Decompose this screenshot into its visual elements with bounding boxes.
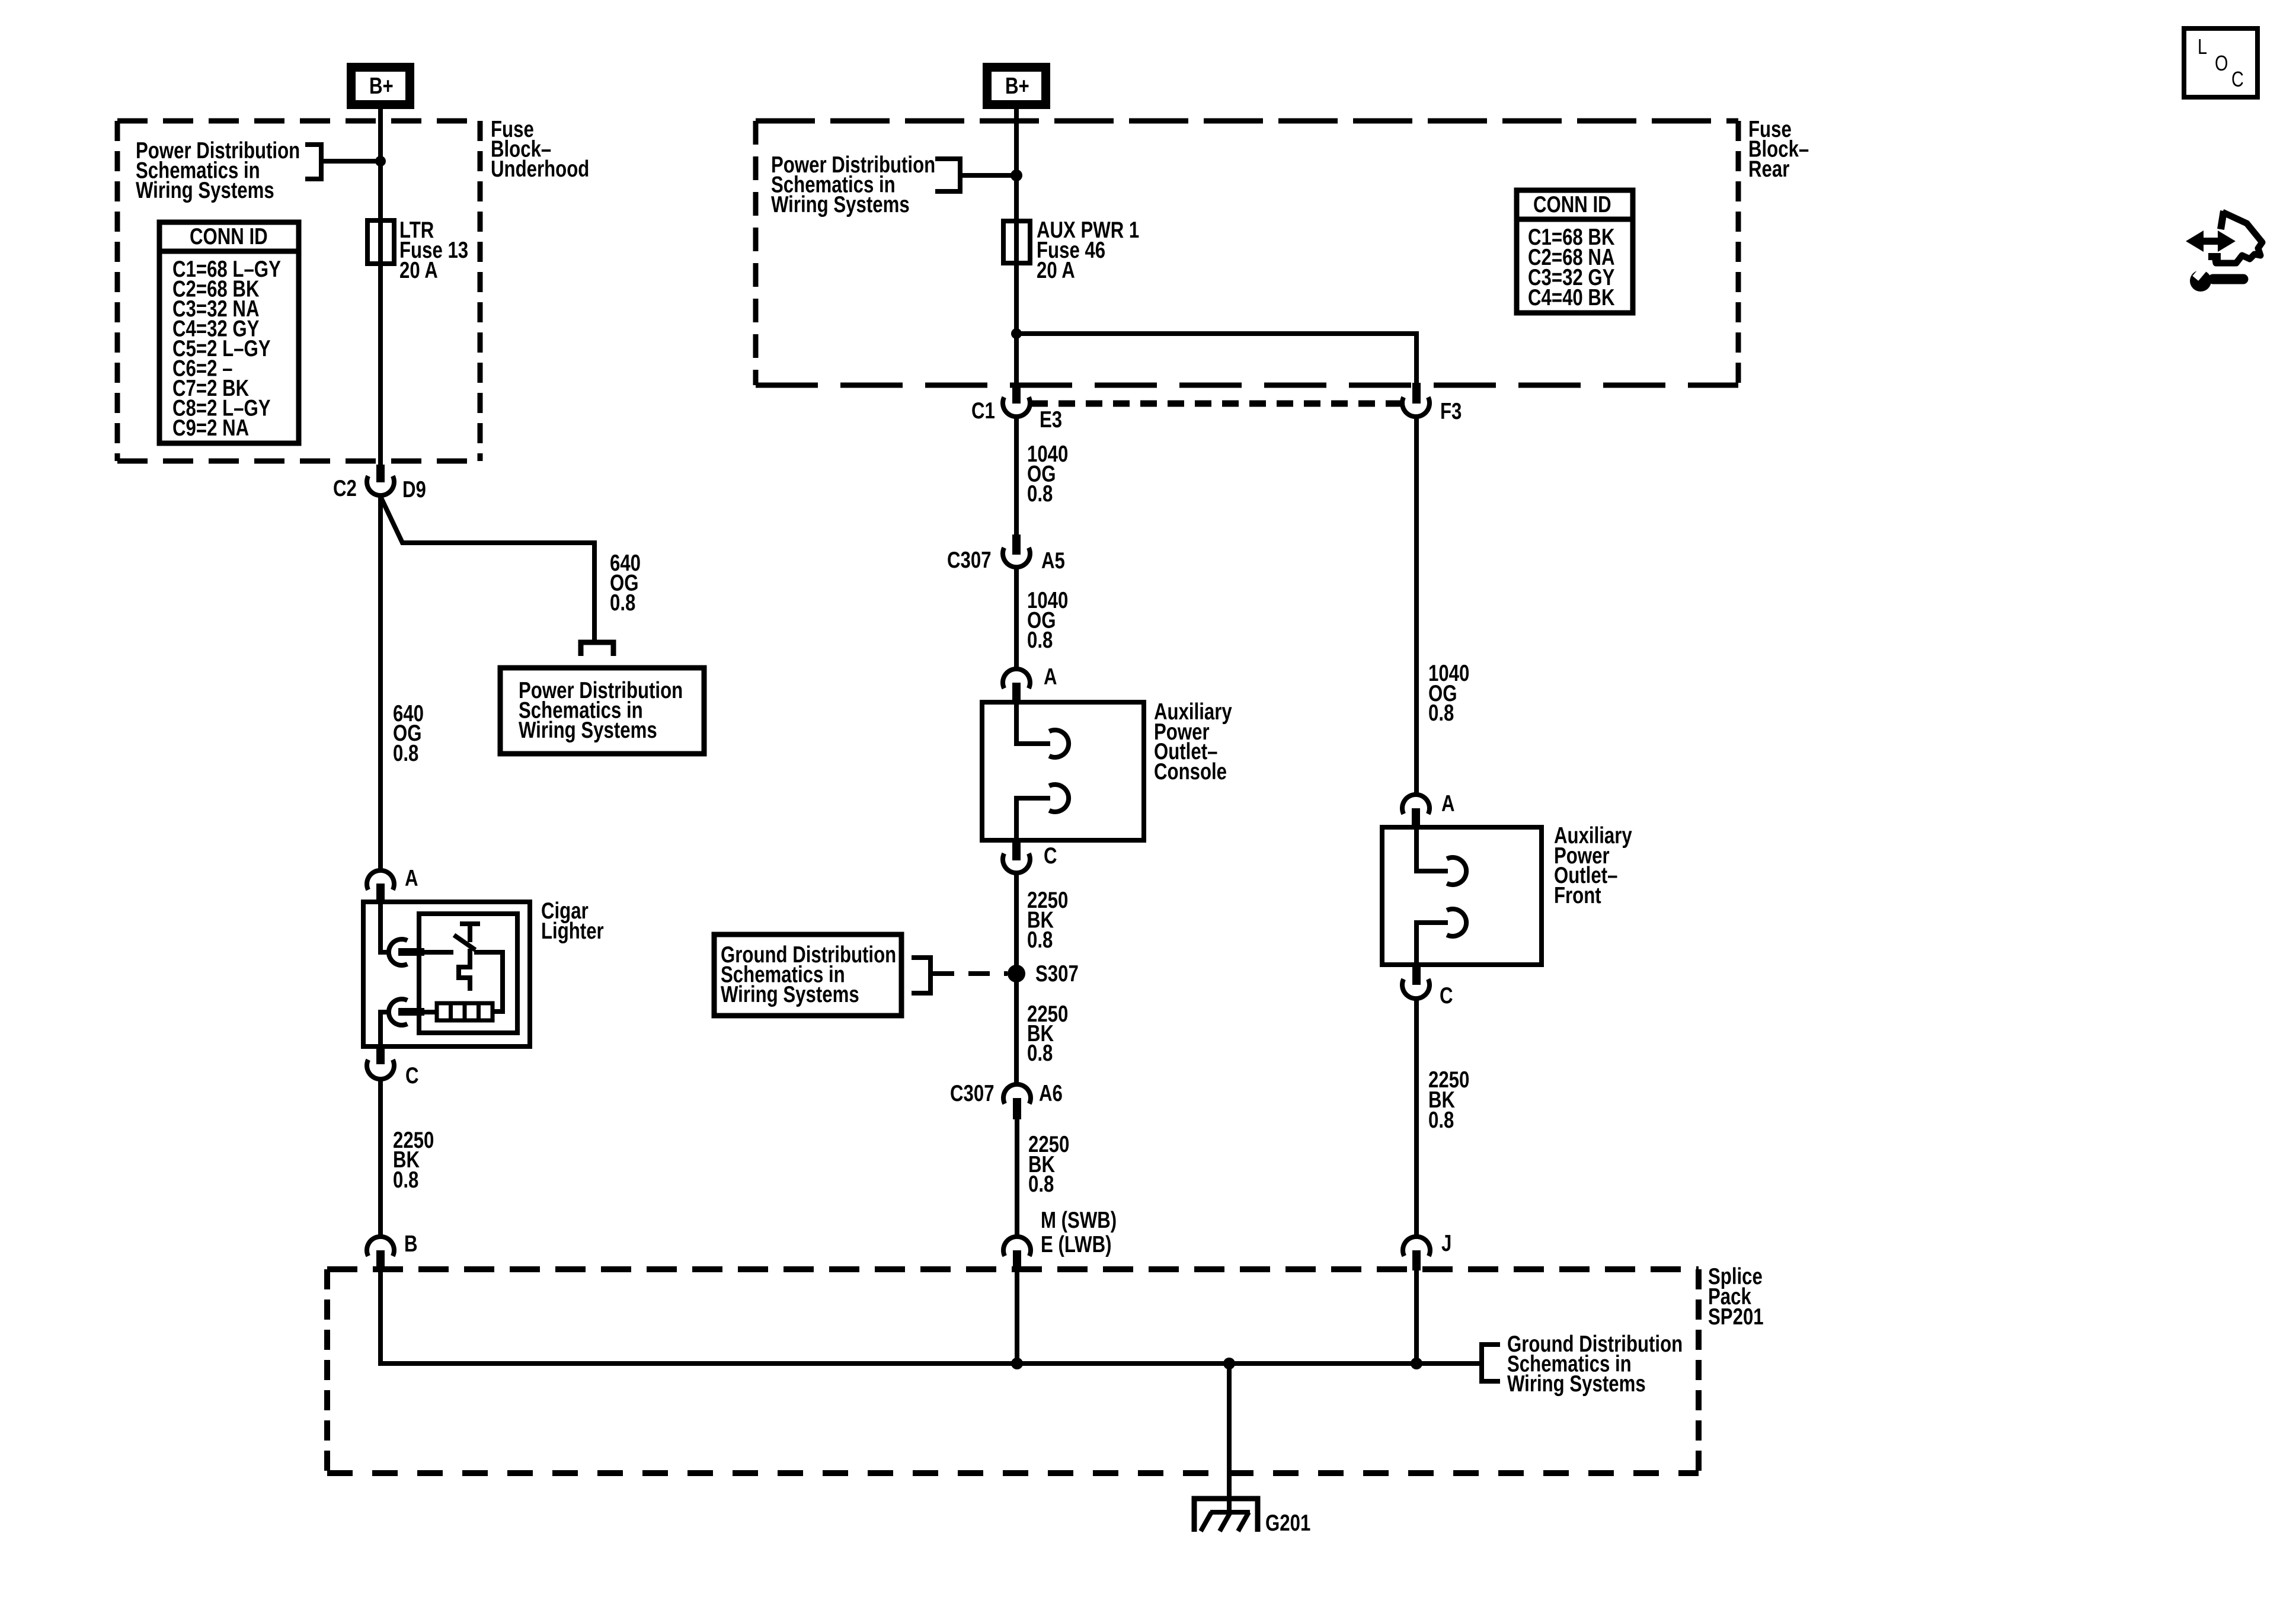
heating element — [437, 1003, 493, 1020]
svg-text:CONN ID: CONN ID — [190, 224, 268, 249]
svg-text:20 A: 20 A — [1037, 258, 1075, 283]
console outlet terminal cup (lower) — [1049, 785, 1069, 812]
double-headed arrow — [2186, 231, 2236, 252]
svg-text:A: A — [1441, 791, 1455, 817]
wire branch to F3 — [1016, 334, 1416, 384]
bracket to note (rear) — [935, 156, 1016, 194]
label 2250 BK 0.8 (left column) — [393, 1128, 434, 1193]
connector E (splice pack) — [1003, 1237, 1031, 1270]
svg-text:C307: C307 — [947, 548, 992, 573]
node junction J on bus — [1411, 1358, 1422, 1369]
svg-text:M (SWB): M (SWB) — [1041, 1208, 1117, 1233]
connector C (front outlet) — [1402, 964, 1453, 1009]
svg-text:O: O — [2215, 51, 2228, 75]
svg-text:Console: Console — [1154, 759, 1227, 785]
cigar lighter pin (lower) — [398, 1008, 424, 1016]
svg-text:Wiring Systems: Wiring Systems — [721, 982, 859, 1007]
label Cigar Lighter — [541, 898, 604, 944]
front outlet terminal cup (upper) — [1447, 857, 1466, 885]
svg-text:0.8: 0.8 — [1027, 1041, 1053, 1066]
wire fuse to connector C2 — [378, 264, 383, 466]
svg-text:0.8: 0.8 — [1027, 628, 1053, 653]
wire B into splice pack — [378, 1268, 383, 1363]
front outlet pin A internal — [1416, 827, 1448, 871]
svg-text:Wiring Systems: Wiring Systems — [136, 178, 274, 203]
service icon: double arrow, panel outline, wrench — [2186, 211, 2262, 292]
node junction branch to F3 — [1011, 328, 1022, 339]
bracket to ground note — [912, 955, 930, 996]
cigar lighter pin C wiring — [380, 1012, 388, 1046]
panel outline — [2221, 211, 2224, 229]
connector J (splice pack) — [1403, 1231, 1451, 1270]
wire A5 to connector A — [1014, 566, 1019, 670]
connector A (cigar lighter) — [367, 866, 418, 902]
dashed leader to S307 — [933, 971, 1008, 976]
node junction E on bus — [1011, 1358, 1023, 1369]
label 2250 BK 0.8 (above M/E) — [1028, 1132, 1069, 1197]
svg-text:0.8: 0.8 — [1027, 481, 1053, 507]
cigar lighter component box — [363, 902, 530, 1046]
bracket to ground note (bus) — [1482, 1342, 1500, 1384]
Auxiliary Power Outlet Front box — [1382, 827, 1542, 965]
label 1040 OG 0.8 (below C307) — [1027, 588, 1068, 653]
Splice Pack dashed box — [327, 1269, 1699, 1473]
svg-text:B+: B+ — [1005, 73, 1029, 99]
connector C2 D9 — [333, 465, 426, 502]
bracket down to boxed note — [581, 642, 613, 656]
wire C to connector J — [1414, 998, 1419, 1237]
note Ground Distribution Schematics in Wiring Systems (bus) — [1507, 1331, 1683, 1397]
switch contact post — [460, 924, 480, 942]
Auxiliary Power Outlet Console box — [982, 702, 1144, 840]
svg-text:E3: E3 — [1040, 407, 1062, 433]
label Auxiliary Power Outlet-Console — [1154, 699, 1232, 785]
bimetal hook — [459, 949, 470, 991]
Fuse Block Underhood dashed box — [117, 121, 480, 461]
svg-text:B: B — [404, 1231, 418, 1257]
wrench — [2213, 274, 2243, 284]
cigar lighter pin A wiring — [380, 902, 388, 952]
connector C (console outlet) — [1003, 839, 1057, 873]
front outlet pin C internal — [1416, 923, 1448, 965]
cigar lighter pin (upper) — [398, 948, 424, 956]
svg-text:D9: D9 — [402, 477, 426, 502]
svg-text:Wiring Systems: Wiring Systems — [771, 192, 910, 217]
label 2250 BK 0.8 (below S307) — [1027, 1001, 1068, 1066]
svg-text:C: C — [405, 1063, 419, 1089]
label 1040 OG 0.8 (above C307) — [1027, 441, 1068, 507]
node junction on B+ feed (left) — [375, 156, 386, 167]
svg-text:0.8: 0.8 — [610, 590, 635, 616]
svg-text:A6: A6 — [1039, 1081, 1063, 1106]
connector C1 E3 — [971, 383, 1062, 433]
labels M (SWB) / E (LWB) — [1041, 1208, 1117, 1257]
fuse LTR Fuse 13 — [367, 220, 394, 264]
wire C to S307 — [1014, 873, 1019, 1085]
svg-text:C: C — [1440, 983, 1453, 1009]
label 2250 BK 0.8 (above S307) — [1027, 888, 1068, 953]
svg-text:Front: Front — [1554, 883, 1601, 908]
node junction ground tap on bus — [1223, 1358, 1235, 1369]
label Fuse Block-Rear — [1748, 117, 1809, 182]
B+ power symbol (middle) — [983, 63, 1050, 109]
B+ power symbol (left) — [347, 63, 414, 109]
CONN ID table (underhood) — [159, 222, 299, 443]
svg-text:F3: F3 — [1440, 399, 1462, 424]
svg-text:SP201: SP201 — [1708, 1304, 1764, 1330]
splice S307 — [1008, 961, 1079, 987]
svg-text:B+: B+ — [369, 73, 394, 99]
wire C1 to C307 A5 — [1014, 417, 1019, 536]
cigar lighter terminal cup (upper) — [389, 939, 407, 965]
front outlet terminal cup (lower) — [1447, 909, 1466, 936]
svg-text:0.8: 0.8 — [393, 741, 418, 766]
wire bus to ground G201 — [1227, 1363, 1232, 1512]
bracket to note (left) — [305, 142, 380, 181]
label 2250 BK 0.8 (right column) — [1428, 1067, 1469, 1133]
ground symbol G201 — [1194, 1499, 1310, 1536]
svg-text:E (LWB): E (LWB) — [1041, 1232, 1112, 1257]
svg-text:A: A — [405, 866, 418, 891]
connector B (splice pack) — [367, 1231, 418, 1269]
svg-text:C2: C2 — [333, 476, 357, 501]
svg-text:L: L — [2198, 34, 2207, 59]
label 640 OG 0.8 (left column) — [393, 701, 424, 766]
svg-text:Underhood: Underhood — [491, 156, 589, 182]
node junction on B+ feed (rear) — [1011, 169, 1022, 181]
wire branch diagonal to power distribution note — [381, 498, 594, 640]
wire C2 to connector A — [378, 497, 383, 870]
console outlet terminal cup (upper) — [1049, 730, 1069, 757]
svg-text:Wiring Systems: Wiring Systems — [1507, 1371, 1646, 1397]
svg-text:C1: C1 — [971, 398, 995, 424]
svg-text:C: C — [1044, 843, 1057, 869]
svg-text:0.8: 0.8 — [1027, 927, 1053, 953]
label Fuse Block-Underhood — [491, 117, 589, 182]
svg-text:20 A: 20 A — [399, 258, 438, 283]
connector C307 A5 — [947, 534, 1065, 574]
wire fuse down to C1 with branch node — [1014, 263, 1019, 384]
connector A (console outlet) — [1003, 664, 1057, 703]
dashed in-line connector C1 to F3 — [1031, 401, 1401, 407]
label Auxiliary Power Outlet-Front — [1554, 823, 1632, 908]
svg-text:CONN ID: CONN ID — [1533, 192, 1611, 217]
label Splice Pack SP201 — [1708, 1264, 1764, 1330]
connector C307 A6 — [950, 1081, 1063, 1119]
wire B+ to fuse (left) — [378, 109, 383, 220]
cigar lighter terminal cup (lower) — [389, 999, 407, 1025]
svg-text:C9=2 NA: C9=2 NA — [172, 415, 249, 441]
svg-text:A5: A5 — [1041, 548, 1065, 574]
svg-text:J: J — [1441, 1231, 1451, 1256]
svg-text:C4=40 BK: C4=40 BK — [1528, 285, 1615, 311]
boxed note Ground Distribution Schematics in Wiring Systems — [714, 934, 901, 1016]
wire E into splice pack — [1015, 1269, 1019, 1363]
svg-text:Wiring Systems: Wiring Systems — [519, 718, 657, 743]
fuse AUX PWR 1 Fuse 46 — [1003, 221, 1030, 263]
console outlet pin A internal — [1016, 702, 1050, 744]
connector C (cigar lighter) — [367, 1045, 419, 1089]
Fuse Block Rear dashed box — [756, 121, 1738, 385]
label 640 OG 0.8 (branch) — [610, 550, 641, 616]
svg-text:0.8: 0.8 — [1428, 1108, 1454, 1133]
label 1040 OG 0.8 (right column) — [1428, 661, 1469, 726]
svg-text:0.8: 0.8 — [393, 1167, 418, 1193]
svg-text:0.8: 0.8 — [1428, 700, 1454, 726]
boxed note Power Distribution Schematics in Wiring Systems — [500, 668, 704, 754]
CONN ID table (rear) — [1517, 190, 1633, 313]
connector F3 — [1402, 383, 1462, 424]
switch to heater wire — [474, 952, 503, 1012]
wire C to connector B — [378, 1080, 383, 1237]
note Power Distribution Schematics in Wiring Systems (left) — [136, 138, 300, 203]
wire B+ to fuse (rear) — [1014, 109, 1019, 221]
wire F3 to connector A (front) — [1414, 417, 1419, 796]
svg-text:C: C — [2231, 67, 2244, 91]
svg-text:Rear: Rear — [1748, 156, 1790, 182]
cigar lighter inner box — [419, 914, 517, 1033]
svg-text:0.8: 0.8 — [1028, 1172, 1054, 1197]
ground bus wire — [380, 1361, 1479, 1363]
svg-text:G201: G201 — [1265, 1510, 1310, 1536]
svg-text:Lighter: Lighter — [541, 918, 604, 944]
note Power Distribution Schematics in Wiring Systems (rear) — [771, 152, 935, 217]
switch blade — [454, 935, 475, 950]
svg-text:S307: S307 — [1035, 961, 1079, 987]
console outlet pin C internal — [1016, 798, 1050, 840]
svg-text:C307: C307 — [950, 1081, 994, 1106]
svg-text:A: A — [1044, 664, 1057, 690]
LOC reference box — [2184, 28, 2257, 97]
wire A6 to splice pack — [1015, 1119, 1019, 1237]
wire J into splice pack — [1414, 1269, 1419, 1363]
connector A (front outlet) — [1402, 791, 1455, 827]
